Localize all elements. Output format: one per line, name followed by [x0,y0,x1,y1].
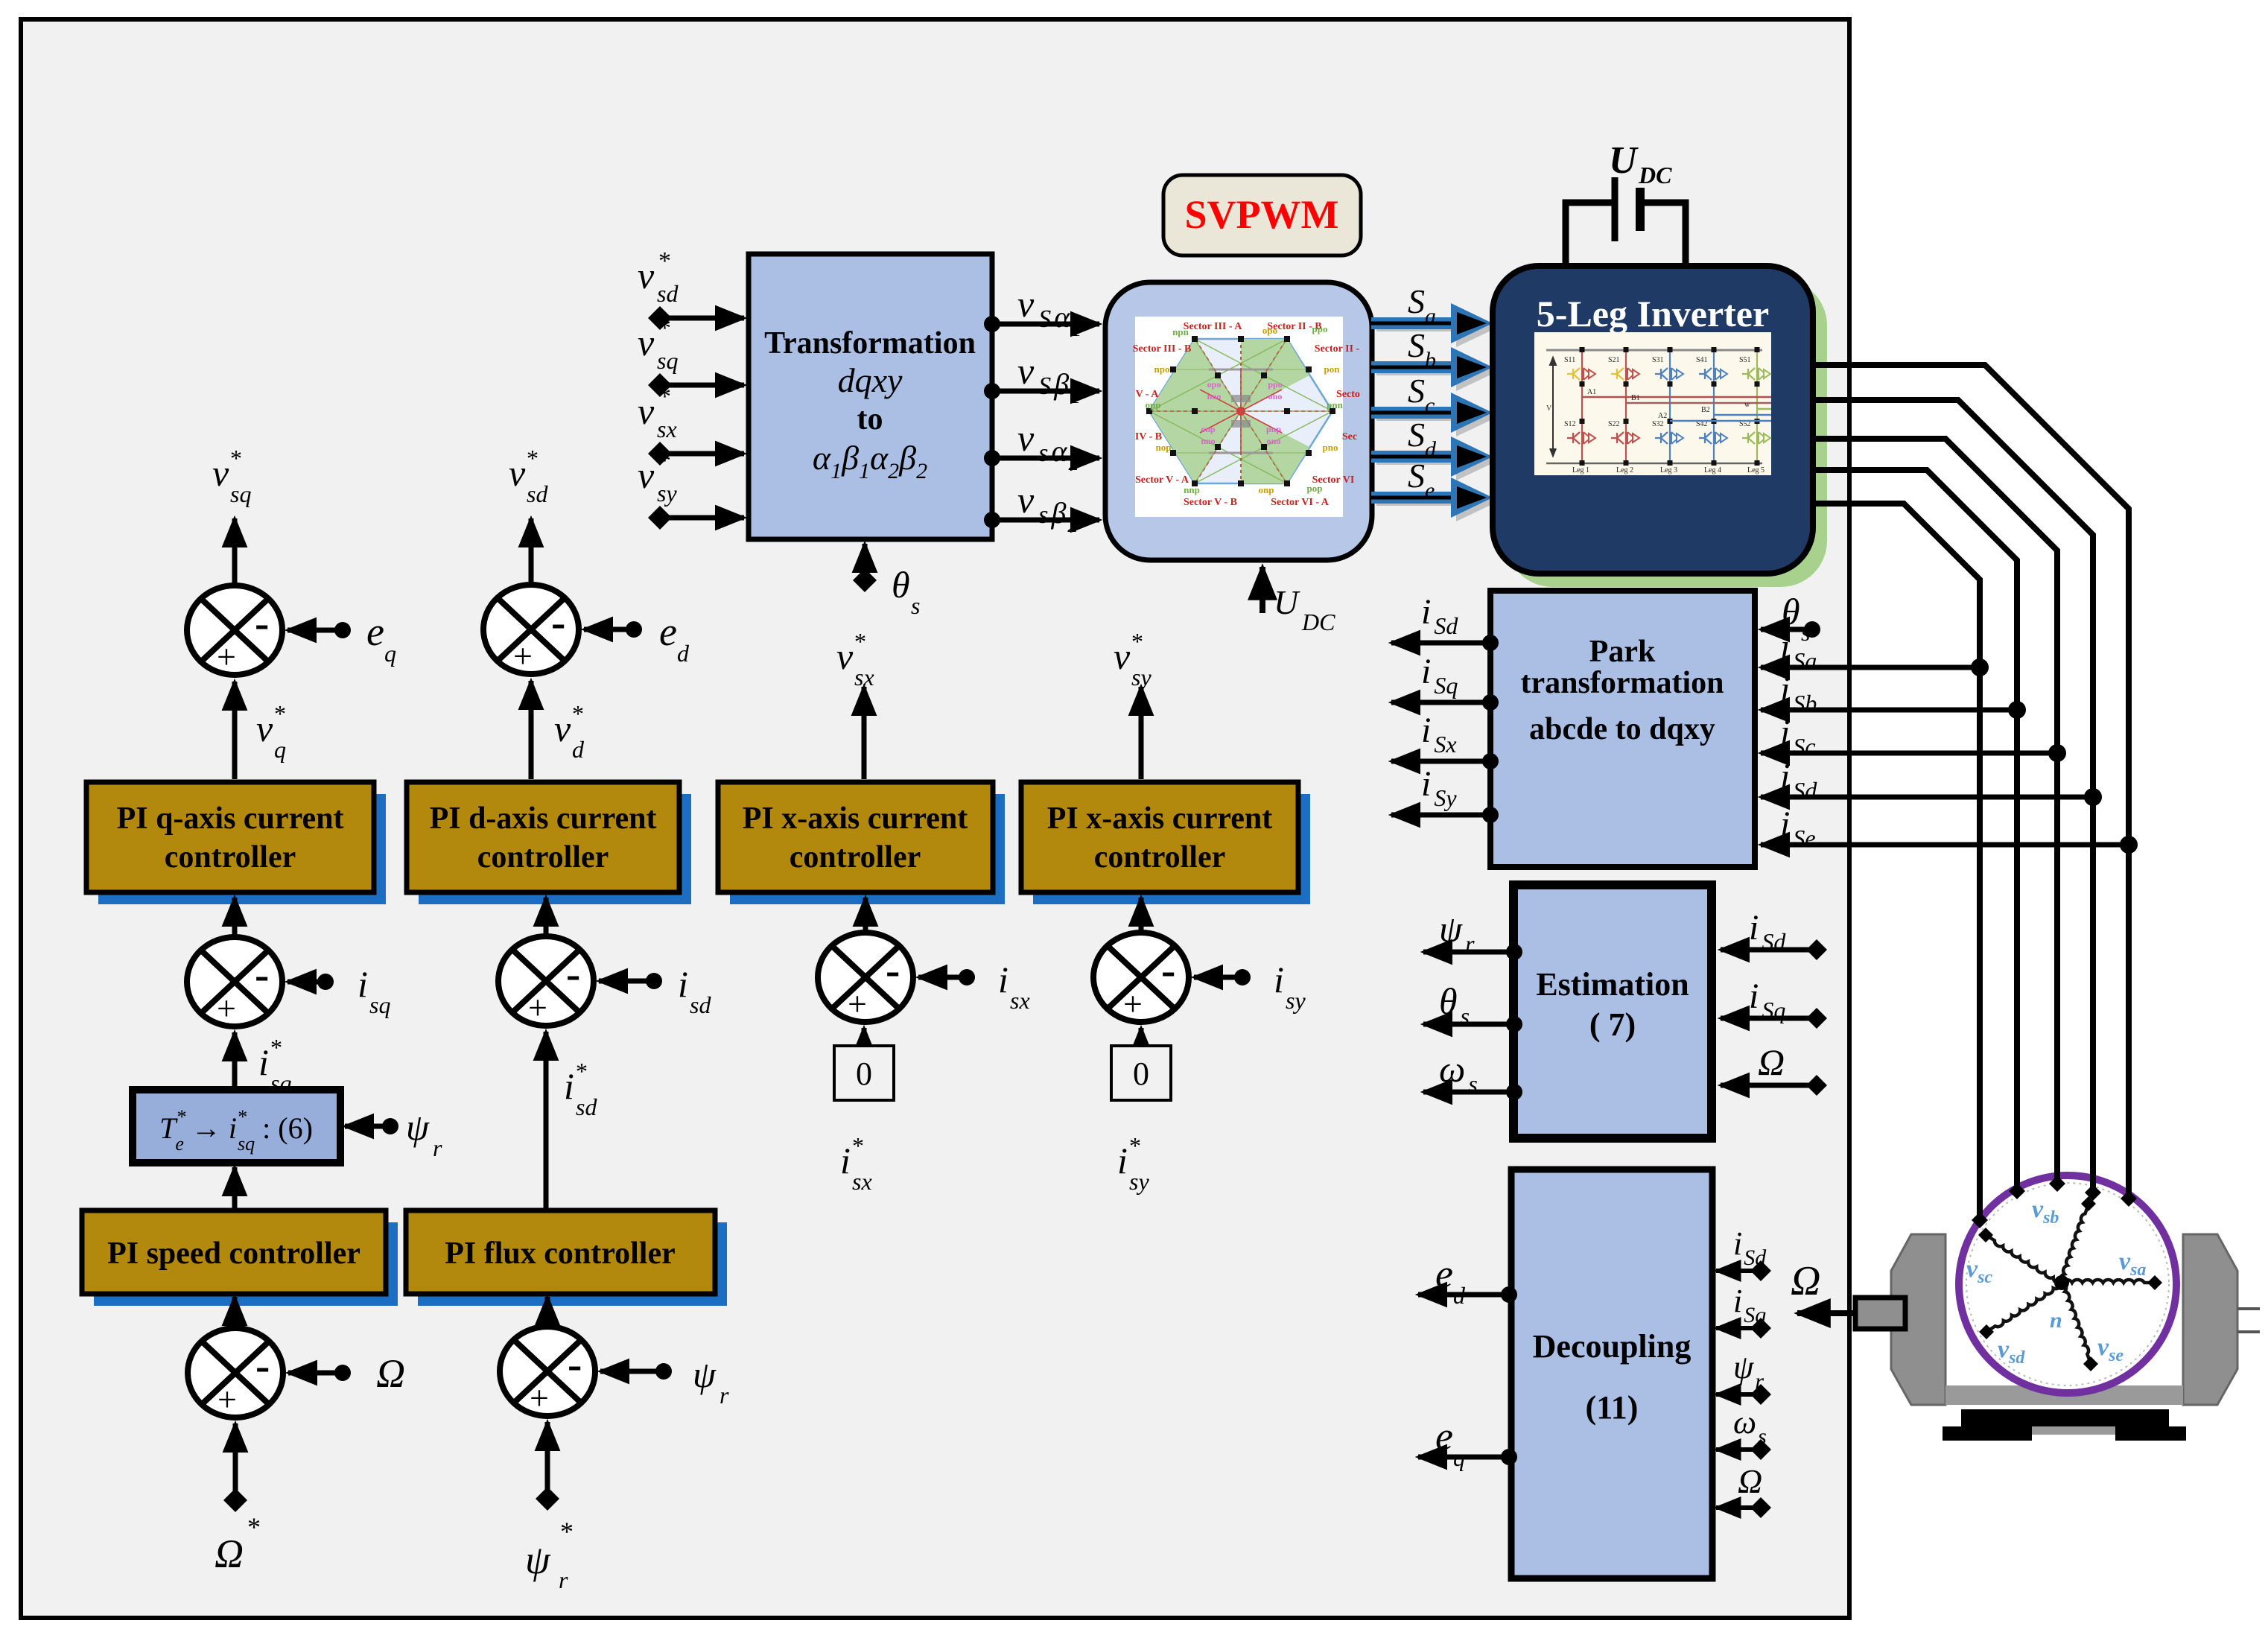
svg-text:Sec: Sec [1342,431,1357,442]
wire theta_s to park [1804,621,1820,638]
motor bottom slab [1945,1385,2183,1405]
svg-text:Ω: Ω [1791,1258,1821,1304]
svg-text:+: + [217,638,236,676]
svg-text:+: + [513,637,533,675]
block Transformation dqxy to a1b1a2b2 [749,254,992,539]
svg-text:v: v [638,322,655,364]
wire i_Sb into park [1761,708,2017,713]
svg-text:onp: onp [1201,424,1216,434]
motor base [1961,1409,2169,1426]
motor left endcap [1891,1234,1945,1405]
svg-text:sq: sq [369,991,390,1018]
summing junction q upper [187,585,282,676]
svg-text:*: * [274,700,286,727]
svg-text:*: * [658,383,671,410]
motor shaft [1855,1298,1905,1329]
wire 0 to summing x [862,1028,867,1044]
svg-text:i: i [678,963,688,1005]
svg-text:*: * [230,445,242,472]
svg-text:DC: DC [1638,162,1672,188]
svg-text:V: V [1546,404,1552,413]
svg-text:Estimation: Estimation [1536,966,1689,1003]
svg-text:*: * [576,1058,588,1085]
node e_d input [626,621,642,638]
svg-text:n: n [2050,1308,2062,1333]
block Estimation (7) [1513,885,1712,1138]
svg-text:B2: B2 [1701,406,1710,414]
wire v*sd output arrow [529,518,534,585]
svg-text:i: i [1117,1140,1128,1181]
svg-text:+: + [848,985,867,1023]
svg-text:ppo: ppo [1268,379,1282,390]
svg-text:*: * [560,1517,574,1546]
block Te to isq (6) [133,1090,340,1163]
node psi_r feedback [655,1363,672,1380]
svg-text:Leg 3: Leg 3 [1660,466,1677,474]
svg-text:+: + [217,1380,237,1418]
wire e_q output [1501,1449,1517,1465]
wire v*sq output arrow [232,518,238,585]
svg-text:i: i [258,1041,269,1083]
svg-text:Secto: Secto [1336,389,1360,400]
block zero reference y [1111,1046,1171,1100]
svg-text:controller: controller [165,840,296,874]
svg-text:e: e [659,609,677,654]
svg-text:+: + [1123,985,1143,1023]
svg-text:Sector V - A: Sector V - A [1135,474,1189,486]
wire estimation input [1806,1075,1827,1096]
svg-text:sy: sy [657,480,677,507]
svg-text:Transformation: Transformation [764,326,976,361]
svg-text:controller: controller [477,840,609,874]
wire v*sd input [648,306,672,330]
svg-text:Leg 4: Leg 4 [1704,466,1721,474]
wire speed ctrl to (6) [232,1167,238,1209]
wire i_Sd park output [1482,635,1499,651]
svg-text:sx: sx [1010,987,1030,1014]
svg-text:s: s [911,592,920,619]
svg-text:ψ: ψ [406,1106,430,1148]
svg-text:e: e [366,609,384,654]
wire summing to speed ctrl [232,1297,238,1325]
svg-text:opo: opo [1262,325,1277,336]
wire to SVPWM [984,450,1000,466]
block PI flux controller [418,1222,727,1306]
svg-text:sx: sx [852,1168,872,1195]
svg-text:ono: ono [1268,391,1283,401]
wire v*sy input [648,506,672,530]
block Decoupling (11) [1511,1169,1712,1578]
svg-text:s: s [1801,619,1810,646]
svg-text:sy: sy [1131,664,1152,691]
svg-text:i: i [1274,959,1284,1000]
svg-text:Ω: Ω [215,1531,244,1576]
wire Omega speed sensor [1797,1310,1855,1316]
wire decoupling input [1750,1260,1771,1281]
winding vsc [1986,1235,2062,1283]
motor right shaft lines [2237,1307,2260,1310]
wire i*sq [232,1032,238,1088]
svg-text:PI speed controller: PI speed controller [107,1237,360,1271]
svg-text:(11): (11) [1586,1389,1639,1426]
svg-text:v: v [1114,635,1131,677]
svg-text:Sector III - A: Sector III - A [1184,321,1243,332]
winding vsb [2060,1204,2088,1283]
block PI x-axis current controller [730,794,1005,904]
svg-text:S32: S32 [1652,420,1664,428]
svg-text:d: d [1453,1282,1466,1309]
svg-text:V - A: V - A [1136,389,1160,400]
node junction iSa [1971,658,1989,676]
wire i*sd from flux controller [544,1032,549,1209]
block zero reference x [834,1046,894,1100]
svg-text:θ: θ [892,564,910,606]
svg-text:Ω: Ω [1758,1041,1785,1083]
wire inverter phase 4 [1813,470,2017,1191]
svg-text:-: - [566,950,580,998]
wire decoupling input [1750,1497,1771,1518]
svg-text:Sector III - B: Sector III - B [1133,343,1192,355]
svg-text:Leg 5: Leg 5 [1747,466,1764,474]
wire from summing to x controller [863,898,868,931]
svg-text:controller: controller [790,840,921,874]
svg-text:abcde to dqxy: abcde to dqxy [1529,712,1715,746]
wire decoupling input [1750,1384,1771,1405]
wire i_Sa into park [1761,665,1980,670]
wire psi_r* input [545,1422,550,1499]
svg-text:pop: pop [1307,483,1323,494]
svg-text:pon: pon [1324,364,1341,375]
svg-text:sd: sd [657,280,679,307]
block PI y-axis current controller [1033,794,1310,904]
svg-text:dqxy: dqxy [838,361,903,399]
svg-text:PI flux controller: PI flux controller [445,1237,676,1271]
svg-text:pnp: pnp [1266,424,1281,434]
winding vsd [1986,1283,2062,1332]
wire e_d output [1501,1286,1517,1303]
svg-text:i: i [358,963,368,1005]
svg-text:*: * [1131,628,1143,655]
block PI q-axis current controller [98,794,386,904]
svg-text:sx: sx [854,664,874,691]
svg-text:w: w [1744,401,1750,409]
wire inverter phase 2 [1813,400,2093,1193]
svg-text:nop: nop [1156,442,1172,453]
svg-text:v: v [836,635,854,677]
svg-text:S21: S21 [1608,356,1620,364]
svg-text:sx: sx [657,416,677,442]
svg-text:-: - [255,950,269,999]
node e_q input [334,622,351,638]
svg-text:v: v [509,452,526,494]
svg-text:d: d [677,640,690,667]
svg-text:-: - [1161,946,1175,994]
svg-text:onp: onp [1259,484,1274,495]
svg-text:i: i [998,959,1008,1000]
svg-text:+: + [528,988,547,1026]
svg-text:-: - [551,598,565,647]
svg-text:q: q [384,640,396,667]
wire Omega* input [233,1423,238,1500]
svg-text:opo: opo [1207,379,1222,390]
svg-text:q: q [1453,1444,1465,1471]
summing junction flux [500,1327,595,1417]
svg-text:-: - [568,1340,582,1388]
svg-text:U: U [1609,139,1639,182]
wire from summing to d controller [544,898,549,935]
svg-text:-: - [255,599,269,647]
svg-text:sd: sd [690,991,711,1018]
svg-text:pno: pno [1323,442,1338,453]
svg-text:sd: sd [527,480,548,507]
motor right endcap [2183,1234,2237,1405]
wire summing to flux ctrl [545,1297,550,1325]
wire i_Sd into park [1761,795,2093,800]
svg-text:*: * [1129,1132,1141,1159]
node junction iSe [2120,836,2138,854]
svg-text:v: v [638,390,655,432]
wire gate signal Sd [1376,456,1473,465]
svg-text:pnn: pnn [1327,399,1343,410]
svg-text:A2: A2 [1658,412,1667,420]
svg-text:S11: S11 [1564,356,1575,364]
svg-text:B1: B1 [1631,394,1640,402]
svg-text:i: i [840,1140,851,1181]
svg-text:*: * [854,628,866,655]
block 5-Leg Inverter [1506,279,1827,587]
summing junction x [818,933,913,1023]
svg-text:PI d-axis current: PI d-axis current [430,801,657,836]
wire to SVPWM [984,512,1000,528]
wire from summing to y controller [1139,898,1144,931]
wire estimation input [1806,939,1827,960]
svg-text:Sector V - B: Sector V - B [1184,497,1237,508]
node psi_r input to (6) [382,1118,398,1134]
summing junction d upper [483,585,579,675]
svg-text:Ω: Ω [1738,1462,1762,1500]
wire estimation output [1506,1084,1522,1100]
svg-text:0: 0 [1133,1056,1149,1092]
svg-text:ψ: ψ [525,1537,551,1582]
node i_sx input [959,969,975,985]
svg-text:e: e [1435,1414,1453,1458]
wire theta_s input to transformation [853,568,877,592]
wire i_Sy park output [1482,807,1499,823]
wire estimation input [1806,1008,1827,1029]
wire 0 to summing y [1139,1028,1144,1044]
wire i_Se into park [1761,842,2129,848]
svg-text:PI q-axis current: PI q-axis current [117,801,344,836]
svg-text:θ: θ [1782,591,1800,632]
svg-text:e: e [1435,1251,1453,1296]
svg-text:*: * [270,1034,282,1061]
svg-text:0: 0 [856,1056,872,1092]
wire inverter phase 3 [1813,439,2057,1184]
svg-text:-: - [255,1342,270,1390]
svg-text:Decoupling: Decoupling [1533,1328,1692,1365]
svg-text:PI x-axis current: PI x-axis current [743,801,968,836]
svg-text:S22: S22 [1608,420,1620,428]
svg-text:controller: controller [1094,840,1226,874]
svpwm hexagon diagram [1135,317,1343,517]
node i_sq input [317,974,334,990]
wire gate signal Sa [1376,323,1473,331]
svg-text:r: r [720,1382,729,1409]
battery symbol [1612,177,1619,241]
wire to SVPWM [984,316,1000,332]
svg-text:DC: DC [1301,609,1335,635]
svg-text:S51: S51 [1739,356,1751,364]
svg-text:v: v [638,255,655,296]
node junction iSc [2048,744,2066,762]
svg-text:v: v [638,454,655,496]
wire v*sx input [648,442,672,466]
svg-text:S41: S41 [1696,356,1708,364]
svg-text:ψ: ψ [693,1353,717,1395]
summing junction speed [188,1328,283,1418]
svg-text:S12: S12 [1564,420,1576,428]
svg-text:sq: sq [657,347,678,374]
motor stator circle [1959,1175,2176,1393]
node winding centre n [2054,1275,2069,1290]
svg-text:U: U [1274,583,1300,621]
summing junction y [1093,933,1189,1023]
svg-text:*: * [527,445,539,472]
svg-text:+: + [530,1379,549,1417]
wire v*sx output arrow [862,687,867,779]
wire decoupling input [1750,1318,1771,1339]
svg-text:transformation: transformation [1521,666,1724,700]
svg-text:v: v [554,708,571,749]
winding vse [2062,1283,2091,1364]
svg-text:SVPWM: SVPWM [1185,192,1339,237]
svg-text:ppo: ppo [1312,323,1328,334]
wire estimation output [1506,944,1522,960]
svg-text:r: r [433,1134,442,1161]
svg-text:A1: A1 [1587,388,1596,396]
node Omega feedback [334,1365,351,1381]
wire gate signal Sc [1376,412,1473,421]
winding vsa [2062,1280,2155,1283]
svg-text:*: * [658,314,671,342]
wire U_DC input to SVPWM [1260,567,1265,613]
svg-text:nno: nno [1201,436,1215,446]
node i_sd input [646,973,662,989]
svg-text:d: d [572,736,585,763]
svg-text:Sector VI - A: Sector VI - A [1271,497,1330,508]
wire i_Sq park output [1482,694,1499,711]
svg-text:S31: S31 [1652,356,1664,364]
wire i_Sc into park [1761,751,2057,756]
inverter circuit image [1534,332,1771,475]
wire v*d [529,681,534,779]
svg-text:*: * [247,1512,261,1542]
svg-text:5-Leg Inverter: 5-Leg Inverter [1537,293,1769,334]
svg-text:sy: sy [1129,1168,1149,1195]
block Park transformation [1490,591,1755,867]
svg-text:PI x-axis current: PI x-axis current [1047,801,1273,836]
svg-text:ono: ono [1267,436,1281,446]
node junction iSd [2084,788,2102,806]
svg-text:to: to [857,402,883,437]
wire inverter phase 1 [1813,365,2129,1199]
svg-text:v: v [256,708,273,749]
block PI d-axis current controller [419,794,691,904]
svg-text:sd: sd [576,1093,597,1120]
svg-text:Sector II -: Sector II - [1315,343,1360,355]
svg-text:nnp: nnp [1184,484,1200,495]
summing junction q lower [187,937,282,1027]
wire i_Sx park output [1482,753,1499,769]
wire from summing to q controller [232,898,238,936]
wire to SVPWM [984,383,1000,399]
wire decoupling input [1750,1439,1771,1460]
wire gate signal Se [1376,497,1473,506]
svg-text:sy: sy [1286,987,1306,1014]
svg-text:*: * [852,1132,864,1159]
svg-text:npo: npo [1154,364,1170,375]
svg-text:+: + [217,989,236,1027]
block SVPWM modulator [1105,282,1372,560]
wire inverter phase 5 [1813,504,1980,1220]
svg-text:*: * [658,247,671,275]
svg-text:( 7): ( 7) [1589,1006,1636,1043]
svg-text:noo: noo [1207,391,1222,401]
svg-text:sq: sq [230,480,251,507]
svg-text:Park: Park [1589,635,1656,669]
svg-text:*: * [658,447,671,474]
node junction iSb [2008,701,2026,719]
svg-text:Leg 2: Leg 2 [1616,466,1633,474]
wire v*q [232,682,238,779]
svg-text:r: r [559,1566,568,1593]
svg-text:q: q [274,736,286,763]
label SVPWM [1163,175,1361,255]
svg-text:Ω: Ω [376,1351,405,1396]
wire gate signal Sb [1376,366,1473,375]
node i_sy input [1234,969,1251,985]
svg-text:-: - [886,946,900,994]
wire v*sq input [648,373,672,397]
wire estimation output [1506,1016,1522,1032]
wire battery to inverter [1566,203,1612,268]
block PI speed controller [94,1222,398,1306]
svg-text:i: i [564,1065,574,1107]
svg-text:npn: npn [1172,326,1189,337]
summing junction d lower [498,936,594,1026]
svg-text:opp: opp [1146,399,1161,410]
wire v*sy output arrow [1139,687,1144,779]
svg-text:IV - B: IV - B [1135,431,1162,442]
svg-text:*: * [572,700,584,727]
svg-text:v: v [212,452,229,494]
svg-text:Leg 1: Leg 1 [1572,466,1589,474]
